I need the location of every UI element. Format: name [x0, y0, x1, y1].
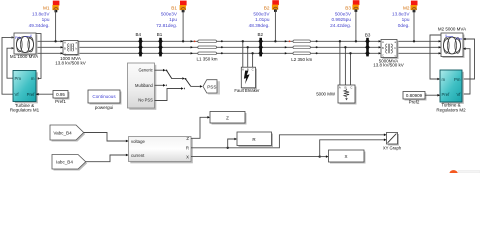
cut-off orange icon bottom-right	[450, 170, 480, 173]
svg-text:Pm: Pm	[15, 35, 22, 40]
wire Z output	[191, 117, 209, 138]
svg-text:XY Graph: XY Graph	[383, 145, 402, 150]
svg-text:0.80909: 0.80909	[406, 93, 423, 98]
svg-text:B1: B1	[171, 6, 177, 11]
svg-text:R: R	[186, 146, 189, 151]
svg-text:B2: B2	[264, 6, 270, 11]
from tag Iabc_B4	[52, 155, 87, 171]
svg-text:A: A	[339, 86, 341, 90]
line L2 pill phase B	[285, 46, 318, 49]
svg-text:500e3V: 500e3V	[335, 11, 352, 16]
load tap wires	[340, 41, 351, 85]
svg-text:0.9925pu: 0.9925pu	[331, 17, 351, 22]
line L1 pill phase C	[191, 52, 223, 55]
svg-text:M1 1000 MVA: M1 1000 MVA	[10, 54, 38, 59]
svg-text:0.95: 0.95	[56, 92, 65, 97]
goto tag PSS	[203, 80, 220, 95]
svg-text:X: X	[344, 154, 347, 159]
svg-text:Pm: Pm	[15, 76, 22, 81]
svg-text:PSS: PSS	[207, 84, 216, 89]
constant Pref2	[403, 92, 427, 101]
manual switch 1 lever	[167, 71, 172, 79]
svg-text:Pref1: Pref1	[55, 99, 66, 104]
bus B3	[365, 38, 370, 57]
fault breaker tap wires	[243, 41, 253, 67]
svg-text:L2 350 km: L2 350 km	[291, 57, 312, 62]
svg-text:A: A	[382, 40, 384, 44]
svg-text:Pref2: Pref2	[409, 99, 420, 104]
svg-text:A: A	[64, 41, 66, 45]
svg-text:13.8 kV/500 kV: 13.8 kV/500 kV	[373, 63, 404, 68]
wire from No PSS output (open stub)	[155, 89, 182, 101]
constant Pref1	[53, 91, 70, 100]
bus B2	[258, 38, 263, 57]
svg-text:13.8 kV/500 kV: 13.8 kV/500 kV	[55, 61, 86, 66]
impedance measurement block	[129, 136, 193, 163]
svg-text:Fault Breaker: Fault Breaker	[234, 88, 260, 93]
wire Iabc to impedance	[85, 155, 128, 162]
svg-text:B: B	[382, 46, 384, 50]
svg-text:0deg.: 0deg.	[398, 23, 410, 28]
machine M2 input arrows	[439, 40, 441, 54]
wire Vabc to impedance	[84, 133, 129, 142]
turbine M2 Vf wire	[462, 49, 470, 94]
wire from Multiband output (open stub)	[155, 84, 164, 86]
turbine & regulators M1	[13, 71, 38, 104]
svg-text:C: C	[252, 67, 254, 71]
load-flow label M2	[392, 1, 417, 43]
wire phase B main	[36, 46, 441, 48]
svg-text:Pm: Pm	[456, 36, 463, 41]
svg-text:powergui: powergui	[95, 105, 113, 110]
svg-text:Z: Z	[226, 115, 229, 120]
svg-text:49.34deg.: 49.34deg.	[29, 23, 50, 28]
load-flow label M1	[29, 1, 60, 43]
T1 input arrows	[61, 40, 63, 54]
L2 red measurement mark	[289, 40, 291, 42]
svg-text:Continuous: Continuous	[92, 94, 116, 99]
wire phase A main	[36, 40, 441, 42]
svg-text:1pu: 1pu	[169, 17, 177, 22]
switch2 output wire	[191, 85, 200, 87]
load-flow label B3	[330, 0, 359, 42]
Pref2 wire	[425, 94, 440, 96]
wire X output	[191, 156, 320, 158]
wire phase C main	[36, 52, 441, 54]
svg-text:72.81deg.: 72.81deg.	[156, 23, 177, 28]
L1 red measurement mark	[194, 40, 196, 42]
turbine M1 Pm wire	[7, 48, 14, 78]
machine M2 m-output wire	[430, 35, 441, 79]
turbine M1 Vf wire	[2, 37, 14, 94]
svg-text:M2: M2	[403, 6, 410, 11]
line L2 pill phase C	[285, 52, 318, 55]
svg-text:M1: M1	[43, 6, 50, 11]
svg-text:48.39deg.: 48.39deg.	[249, 23, 270, 28]
manual switch 2 lever	[186, 79, 191, 86]
svg-text:B3: B3	[365, 33, 371, 38]
svg-text:Vabc_B4: Vabc_B4	[53, 130, 72, 135]
svg-text:1pu: 1pu	[402, 17, 410, 22]
svg-text:500e3V: 500e3V	[161, 11, 178, 16]
Pref1 wire	[36, 93, 53, 95]
line L2 pill phase A	[285, 40, 318, 43]
svg-text:Generic: Generic	[138, 68, 152, 73]
svg-text:B1: B1	[157, 32, 163, 37]
svg-text:Multiband: Multiband	[135, 83, 153, 88]
fault breaker block	[241, 67, 257, 89]
wire X branch to XY graph	[320, 140, 386, 157]
svg-text:voltage: voltage	[131, 139, 145, 144]
machine M1	[12, 33, 38, 56]
load-flow label B1	[156, 1, 186, 43]
display Z	[210, 112, 247, 125]
svg-text:Iabc_B4: Iabc_B4	[56, 160, 73, 165]
powergui block	[88, 90, 122, 105]
svg-text:m: m	[442, 77, 446, 82]
svg-text:B: B	[64, 47, 66, 51]
transformer T2	[381, 40, 399, 60]
machine M2	[441, 33, 465, 58]
XY Graph block	[387, 133, 400, 146]
wire R branch to display	[228, 139, 236, 148]
svg-text:Pref: Pref	[27, 92, 36, 97]
svg-text:A: A	[242, 67, 244, 71]
svg-text:current: current	[131, 153, 145, 158]
svg-text:M2 5000 MVA: M2 5000 MVA	[438, 27, 466, 32]
svg-text:Regulators M1: Regulators M1	[10, 108, 40, 113]
svg-text:B3: B3	[345, 6, 351, 11]
svg-text:13.8e3V: 13.8e3V	[392, 11, 410, 16]
load-flow label B2	[249, 0, 279, 42]
svg-text:B4: B4	[135, 32, 141, 37]
bus B4	[138, 38, 143, 57]
switch wire from Generic output	[155, 69, 164, 71]
svg-text:No PSS: No PSS	[138, 98, 153, 103]
turbine M2 Pm wire	[462, 39, 475, 79]
load 5000 MW block	[338, 85, 357, 105]
svg-text:Pm: Pm	[454, 77, 461, 82]
svg-text:500e3V: 500e3V	[253, 11, 270, 16]
svg-text:Regulators M2: Regulators M2	[436, 107, 466, 112]
svg-text:5000 MW: 5000 MW	[316, 91, 336, 96]
transformer T1	[63, 41, 80, 57]
svg-text:24.42deg.: 24.42deg.	[330, 23, 351, 28]
svg-text:C: C	[382, 54, 384, 58]
display R	[237, 132, 273, 147]
wire R output	[191, 135, 385, 148]
svg-text:1pu: 1pu	[42, 17, 50, 22]
svg-text:B2: B2	[257, 32, 263, 37]
svg-text:13.8e3V: 13.8e3V	[32, 11, 50, 16]
svg-text:X: X	[186, 154, 189, 159]
line L1 pill phase B	[191, 46, 223, 49]
from tag Vabc_B4	[50, 125, 85, 142]
switch1 output wire	[172, 78, 182, 80]
bus B1	[158, 38, 163, 57]
svg-text:L1 350 km: L1 350 km	[196, 57, 217, 62]
svg-text:m: m	[31, 76, 35, 81]
svg-text:Pref: Pref	[442, 92, 451, 97]
turbine & regulators M2	[440, 70, 464, 104]
svg-text:Z: Z	[186, 136, 189, 141]
machine M1 m-output wire	[36, 34, 41, 79]
svg-text:1.01pu: 1.01pu	[255, 17, 270, 22]
display X	[329, 150, 366, 164]
PSS selector subsystem	[128, 63, 157, 110]
line L1 pill phase A	[191, 40, 223, 43]
T2 input arrows	[379, 40, 381, 54]
